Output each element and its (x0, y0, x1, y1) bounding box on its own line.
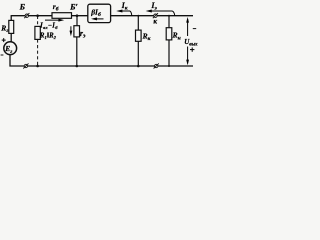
wire Rn lower (168, 40, 170, 66)
plus sign (190, 49, 194, 51)
node B' dot (76, 14, 79, 17)
arrow inside box (94, 18, 104, 20)
node junction dot top-left (36, 14, 39, 17)
wire Rg to Eg (10, 33, 12, 42)
terminal input top (25, 14, 28, 17)
source Eg (4, 42, 17, 55)
background (0, 0, 200, 73)
terminal input bottom (24, 64, 27, 67)
voltage arrow Uout upper segment (187, 19, 189, 36)
resistor r_b (horizontal) (52, 13, 72, 19)
node junction Rn top (168, 15, 170, 17)
wire r_e to bottom (76, 37, 78, 66)
junction dot bottom Rn (168, 65, 170, 67)
wire B' down (76, 16, 78, 26)
resistor r_e (74, 26, 80, 37)
wire Rk upper (137, 16, 139, 30)
minus sign (193, 28, 196, 30)
node junction Rk top (137, 15, 139, 17)
current arrow down (emitter) (70, 26, 72, 33)
resistor R1||R2 (35, 26, 40, 39)
wire bottom horizontal (10, 54, 193, 66)
voltage arrow Uout lower segment (187, 47, 189, 64)
wire dashed upper (R1||R2 branch) (37, 16, 39, 26)
svg-text:Б′: Б′ (69, 2, 78, 12)
terminal output bottom (155, 64, 158, 67)
junction dot bottom Rk (137, 65, 140, 68)
wire dashed lower (R1||R2 branch) (37, 39, 39, 66)
resistor Rg (9, 20, 14, 33)
junction dot bottom r_e (76, 65, 79, 68)
resistor Rn (166, 28, 172, 40)
wire Rn upper (168, 16, 170, 28)
dependent source box betaIb (88, 4, 111, 22)
current arrow Ik (130, 11, 132, 16)
current arrow Ivx-Ib (45, 19, 62, 21)
svg-text:к: к (153, 17, 157, 25)
resistor Rk (136, 30, 142, 41)
terminal output top (154, 14, 157, 17)
wire Rg top lead (10, 15, 12, 20)
junction dot bottom R1R2 (36, 65, 39, 68)
svg-text:Б: Б (19, 1, 26, 11)
wire Rk lower (137, 41, 139, 66)
current arrow Ie (172, 11, 175, 16)
wire top horizontal (11, 15, 193, 17)
